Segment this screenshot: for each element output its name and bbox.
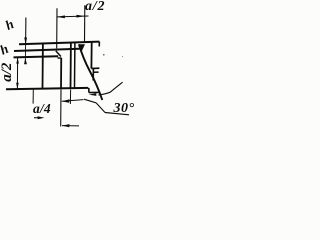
- inner vertical V0: [42, 44, 44, 89]
- wedge at slant top: [79, 44, 85, 52]
- inner vertical V3: [74, 42, 76, 88]
- h dim thin shaft through lines: [24, 44, 26, 64]
- svg-text:a/2: a/2: [0, 62, 15, 82]
- inner vertical V2: [70, 42, 72, 88]
- top dim extension left: [56, 8, 58, 48]
- angle leader arc: [99, 82, 123, 95]
- svg-text:a/4: a/4: [33, 101, 51, 116]
- noise speck 2: [122, 56, 123, 57]
- top dim arrow right: [77, 15, 85, 18]
- bottom extra arrow shaft: [62, 125, 79, 127]
- leader shelf under 30deg: [105, 113, 129, 115]
- 30deg face slant S1: [79, 44, 102, 100]
- top edge of body: [19, 42, 99, 45]
- noise speck 1: [103, 54, 105, 56]
- arc arrowhead at slant: [89, 93, 97, 96]
- notch vertical V4 lower: [92, 68, 94, 80]
- step vertical at bottom right: [88, 88, 90, 93]
- top dim arrow left (tip at ext, flare right): [57, 15, 65, 18]
- svg-text:a/2: a/2: [85, 0, 105, 14]
- h dim long shaft: [25, 18, 27, 44]
- svg-text:h: h: [3, 16, 16, 33]
- slot front vertical V1: [60, 58, 62, 88]
- left a/2 down arrow: [16, 83, 19, 89]
- plate bottom line L3: [14, 56, 59, 57]
- jog at slot corner: [58, 57, 62, 59]
- lower shelf: [89, 91, 99, 93]
- notch vertical V4 upper: [90, 42, 92, 69]
- h up arrow below L3: [24, 58, 27, 64]
- notch bottom 1: [91, 67, 99, 69]
- leader segment 2: [96, 103, 105, 113]
- a/4 extension right / V1 projected: [60, 90, 62, 127]
- left a/2 up arrow: [16, 58, 19, 64]
- V2 extension below body: [69, 90, 71, 105]
- a/4 arrow shaft: [62, 100, 84, 102]
- a/4 extension left: [32, 90, 34, 104]
- small right arrow under a/4: [38, 116, 45, 119]
- bottom edge of body: [6, 88, 88, 89]
- h down arrow tip on top edge: [24, 38, 27, 45]
- plate top line L2: [14, 49, 80, 51]
- svg-text:30°: 30°: [113, 101, 135, 116]
- small chamfer on plate nose: [56, 51, 61, 57]
- a/4 left-pointing arrow at x=61: [62, 99, 70, 102]
- top dimension line a/2: [57, 15, 89, 18]
- left dimension line a/2: [16, 58, 18, 89]
- notch bottom 2: [93, 71, 98, 73]
- leader segment 1: [84, 99, 96, 103]
- top dim extension right: [84, 5, 86, 41]
- bottom extra left-pointing arrow: [62, 124, 70, 127]
- small right arrow shaft: [34, 117, 40, 118]
- right edge of body: [98, 42, 100, 47]
- svg-text:h: h: [0, 41, 11, 58]
